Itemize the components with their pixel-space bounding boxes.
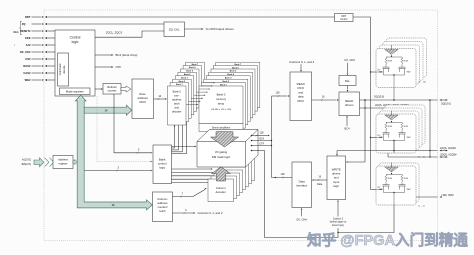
hatched arrow column decoder to I/O gating: [212, 167, 231, 181]
svg-text:and: and: [175, 106, 180, 110]
ZQ CAL block: [164, 22, 185, 37]
input pin ODT: [25, 15, 335, 19]
svg-text:RESET#: RESET#: [20, 29, 31, 33]
address bus teal vertical trunk: [75, 95, 152, 210]
CK CK# into data interface: [296, 208, 307, 222]
svg-text:ODT: ODT: [377, 187, 381, 189]
svg-text:decode: decode: [63, 65, 66, 74]
svg-text:Bank 0: Bank 0: [173, 90, 182, 94]
svg-text:register: register: [59, 161, 68, 165]
bank control fan-out to row latches: [172, 114, 188, 153]
mode registers block: [60, 88, 91, 95]
svg-text:DM mask logic: DM mask logic: [212, 155, 231, 159]
svg-text:BA[2:0]: BA[2:0]: [22, 162, 31, 166]
svg-text:128: 128: [276, 91, 281, 94]
column 2 select label and wire into WRITE drivers: [330, 200, 347, 227]
svg-text:128: 128: [260, 131, 265, 134]
wire data interface to data bus, 128: [272, 173, 293, 178]
svg-text:RAS#: RAS#: [23, 64, 31, 68]
input pin ZQ: [22, 22, 164, 26]
REG bracket for registered inputs: [13, 21, 21, 47]
svg-text:RON: RON: [388, 178, 393, 180]
svg-text:logic: logic: [72, 40, 79, 44]
svg-text:A12: A12: [26, 43, 31, 47]
svg-text:Bank 0: Bank 0: [217, 92, 226, 96]
svg-text:control: control: [340, 18, 348, 21]
watermark zhihu: [307, 231, 468, 249]
svg-text:Address: Address: [58, 158, 69, 162]
svg-text:BC4: BC4: [260, 139, 265, 141]
command decode block: [58, 53, 69, 86]
latch to memory array link wires: [186, 82, 215, 105]
LDM UDM pad wire: [416, 194, 453, 198]
input pin CS#: [25, 57, 55, 61]
svg-text:SW2: SW2: [407, 71, 411, 73]
DLL block: [339, 76, 356, 86]
svg-text:(1 ... 2): (1 ... 2): [418, 206, 425, 208]
svg-text:DLL: DLL: [345, 79, 351, 83]
svg-text:MUX: MUX: [297, 99, 303, 103]
svg-text:CK, CK#: CK, CK#: [296, 217, 307, 221]
DM driver cell stack: [376, 163, 425, 208]
svg-text:UDQS, UDQS#: UDQS, UDQS#: [440, 154, 457, 157]
wire row address MUX to row address latch, 14 bits: [154, 94, 168, 100]
row address MUX block: [132, 79, 154, 119]
svg-text:logic: logic: [333, 184, 339, 188]
wire BC4 into READ drivers: [344, 116, 350, 131]
svg-text:BC4: BC4: [344, 127, 350, 131]
address input A[13:0] BA[2:0]: [22, 158, 54, 167]
svg-text:RON: RON: [388, 61, 393, 63]
svg-text:OTF: OTF: [260, 144, 265, 146]
address register output stub into bus: [73, 159, 77, 164]
svg-text:CKE: CKE: [25, 36, 31, 40]
svg-text:LDQS, LDQS#: LDQS, LDQS#: [440, 147, 456, 150]
svg-text:REG: REG: [13, 31, 18, 34]
CK CK# input to DLL: [344, 58, 355, 76]
svg-text:ZQCL, ZQCS: ZQCL, ZQCS: [106, 30, 122, 34]
row address latch and decoder bank stack: [168, 62, 205, 125]
READ drivers block: [339, 92, 360, 116]
svg-text:OTF: OTF: [116, 65, 122, 69]
wire WRITE drivers to data interface, 16 Data: [312, 176, 327, 186]
svg-text:memory: memory: [216, 97, 227, 101]
hollow arrow refresh counter to row address MUX: [121, 86, 131, 92]
dotted command wire to bank control logic: [97, 96, 153, 162]
READ FIFO and data MUX block: [290, 72, 312, 121]
svg-text:ODT: ODT: [25, 15, 31, 19]
svg-text:address: address: [172, 98, 182, 102]
svg-text:Refresh: Refresh: [107, 85, 117, 89]
svg-text:DQ[15:0]: DQ[15:0]: [374, 96, 384, 99]
bank control wire to I/O gating: [172, 146, 197, 148]
wire refresh counter to bank control logic, 3: [114, 94, 153, 154]
address bus label 10 on bottom branch: [112, 204, 115, 207]
column decoder bank stack: [208, 158, 255, 202]
DM column2 wire down: [337, 205, 394, 233]
column 2 select wire down and around: [265, 151, 339, 238]
svg-text:WE#: WE#: [25, 78, 31, 82]
svg-text:interface: interface: [296, 184, 307, 188]
wire ZQ CAL output to ODT/output drivers: [185, 27, 235, 31]
wire READ FIFO to READ drivers, 16: [312, 96, 340, 101]
DQS route wire from READ drivers: [360, 104, 421, 113]
control logic block: [55, 30, 95, 96]
column address counter latch block: [153, 192, 173, 222]
I/O gating DM mask logic block: [197, 130, 258, 168]
svg-text:DQ[15:0]: DQ[15:0]: [441, 103, 451, 106]
svg-text:lower byte): lower byte): [332, 224, 344, 227]
input pin RESET#: [20, 29, 55, 33]
svg-text:drivers: drivers: [345, 103, 354, 107]
svg-text:To ODT/output drivers: To ODT/output drivers: [206, 27, 235, 31]
wire address bus to bank control logic, 3: [85, 165, 153, 171]
svg-text:CK, CK#: CK, CK#: [20, 50, 31, 54]
LDQS pad wire and strobe to write logic: [336, 141, 456, 157]
svg-text:ODT: ODT: [377, 135, 381, 137]
svg-text:知乎 @FPGA入门到精通: 知乎 @FPGA入门到精通: [307, 231, 468, 249]
input pin CAS#: [23, 71, 55, 75]
svg-text:array: array: [218, 101, 225, 105]
bank control logic block: [153, 145, 172, 184]
DQS driver cell stack: [376, 105, 425, 159]
svg-text:SW2: SW2: [407, 189, 411, 191]
data interface block: [292, 162, 312, 208]
svg-text:CS#: CS#: [25, 57, 31, 61]
wire control logic to refresh counter: [95, 88, 103, 90]
svg-text:decoder: decoder: [216, 190, 226, 194]
UDQS pad wire: [388, 153, 457, 158]
svg-text:decoder: decoder: [172, 110, 182, 114]
address bus branch to row address MUX, 14: [84, 105, 132, 115]
address register block: [53, 156, 73, 169]
svg-text:counter: counter: [108, 89, 117, 93]
sense amplifiers block: [199, 124, 243, 132]
wire DLL to READ drivers: [347, 86, 349, 93]
input pin CKE: [25, 36, 55, 40]
svg-text:CK, CK#: CK, CK#: [344, 58, 355, 62]
svg-text:I/O gating: I/O gating: [215, 150, 228, 154]
vertical pad-side wire: [429, 100, 430, 158]
ODT control block: [335, 14, 354, 22]
svg-text:latch: latch: [174, 102, 180, 106]
svg-text:128: 128: [281, 173, 286, 176]
input pin RAS#: [23, 64, 55, 68]
svg-text:Columns 0, 1, and 2: Columns 0, 1, and 2: [198, 211, 223, 215]
wire ZQCL ZQCS from control logic to ZQ CAL: [95, 30, 164, 37]
svg-text:RON: RON: [404, 178, 409, 180]
svg-text:SW2: SW2: [407, 137, 411, 139]
svg-text:logic: logic: [159, 166, 165, 170]
svg-text:ZQ CAL: ZQ CAL: [169, 27, 180, 31]
bank control fan-out to column decoders: [172, 168, 228, 183]
svg-text:(16,384 x 128 x 128): (16,384 x 128 x 128): [211, 109, 231, 111]
wire OTF output: [95, 65, 122, 69]
chip boundary dashed border: [44, 10, 438, 241]
svg-text:Data: Data: [317, 183, 323, 186]
DQ output driver cell stack: [376, 38, 427, 100]
svg-text:MUX: MUX: [139, 100, 145, 104]
wire BC4 burst chop output: [95, 53, 137, 57]
svg-text:row-: row-: [174, 94, 179, 98]
input pin A12: [26, 43, 55, 47]
svg-text:latch: latch: [160, 209, 166, 213]
input pin WE#: [25, 78, 55, 82]
wire column counter to column decoder, 7: [173, 188, 207, 197]
svg-text:(1 ... 16): (1 ... 16): [418, 82, 426, 84]
svg-text:RON: RON: [404, 126, 409, 128]
WRITE drivers and input logic block: [327, 156, 346, 200]
write path wire to WRITE drivers: [346, 100, 365, 163]
vertical internal data bus wire: [271, 96, 272, 178]
svg-text:ODT: ODT: [377, 70, 381, 72]
svg-text:BC4 (burst chop): BC4 (burst chop): [116, 53, 138, 57]
svg-text:Columns 0, 1, and 2: Columns 0, 1, and 2: [289, 60, 314, 64]
svg-text:Bank 4: Bank 4: [184, 73, 191, 76]
hatched wide arrow sense amplifiers to I/O gating: [211, 132, 239, 147]
input pin CK, CK#: [20, 50, 55, 54]
wire ODT to driver stacks: [353, 17, 376, 190]
wire data bus to READ FIFO, 128: [272, 91, 291, 96]
refresh counter block: [103, 84, 121, 95]
wire columns 0 1 2 into READ FIFO: [289, 60, 314, 72]
svg-text:ZQ: ZQ: [22, 22, 26, 26]
DQ bus wire to pads: [360, 96, 451, 106]
I/O gating tap wires 128 BC4 OTF: [251, 131, 272, 151]
svg-text:Mode registers: Mode registers: [66, 90, 84, 94]
svg-text:RON: RON: [388, 126, 393, 128]
svg-text:CAS#: CAS#: [23, 71, 31, 75]
memory array bank stack: [199, 62, 260, 128]
wire column counter columns 0 1 2: [173, 208, 223, 215]
svg-text:Command: Command: [59, 63, 62, 75]
svg-text:LDM, UDM: LDM, UDM: [442, 194, 454, 197]
svg-text:RON: RON: [404, 61, 409, 63]
